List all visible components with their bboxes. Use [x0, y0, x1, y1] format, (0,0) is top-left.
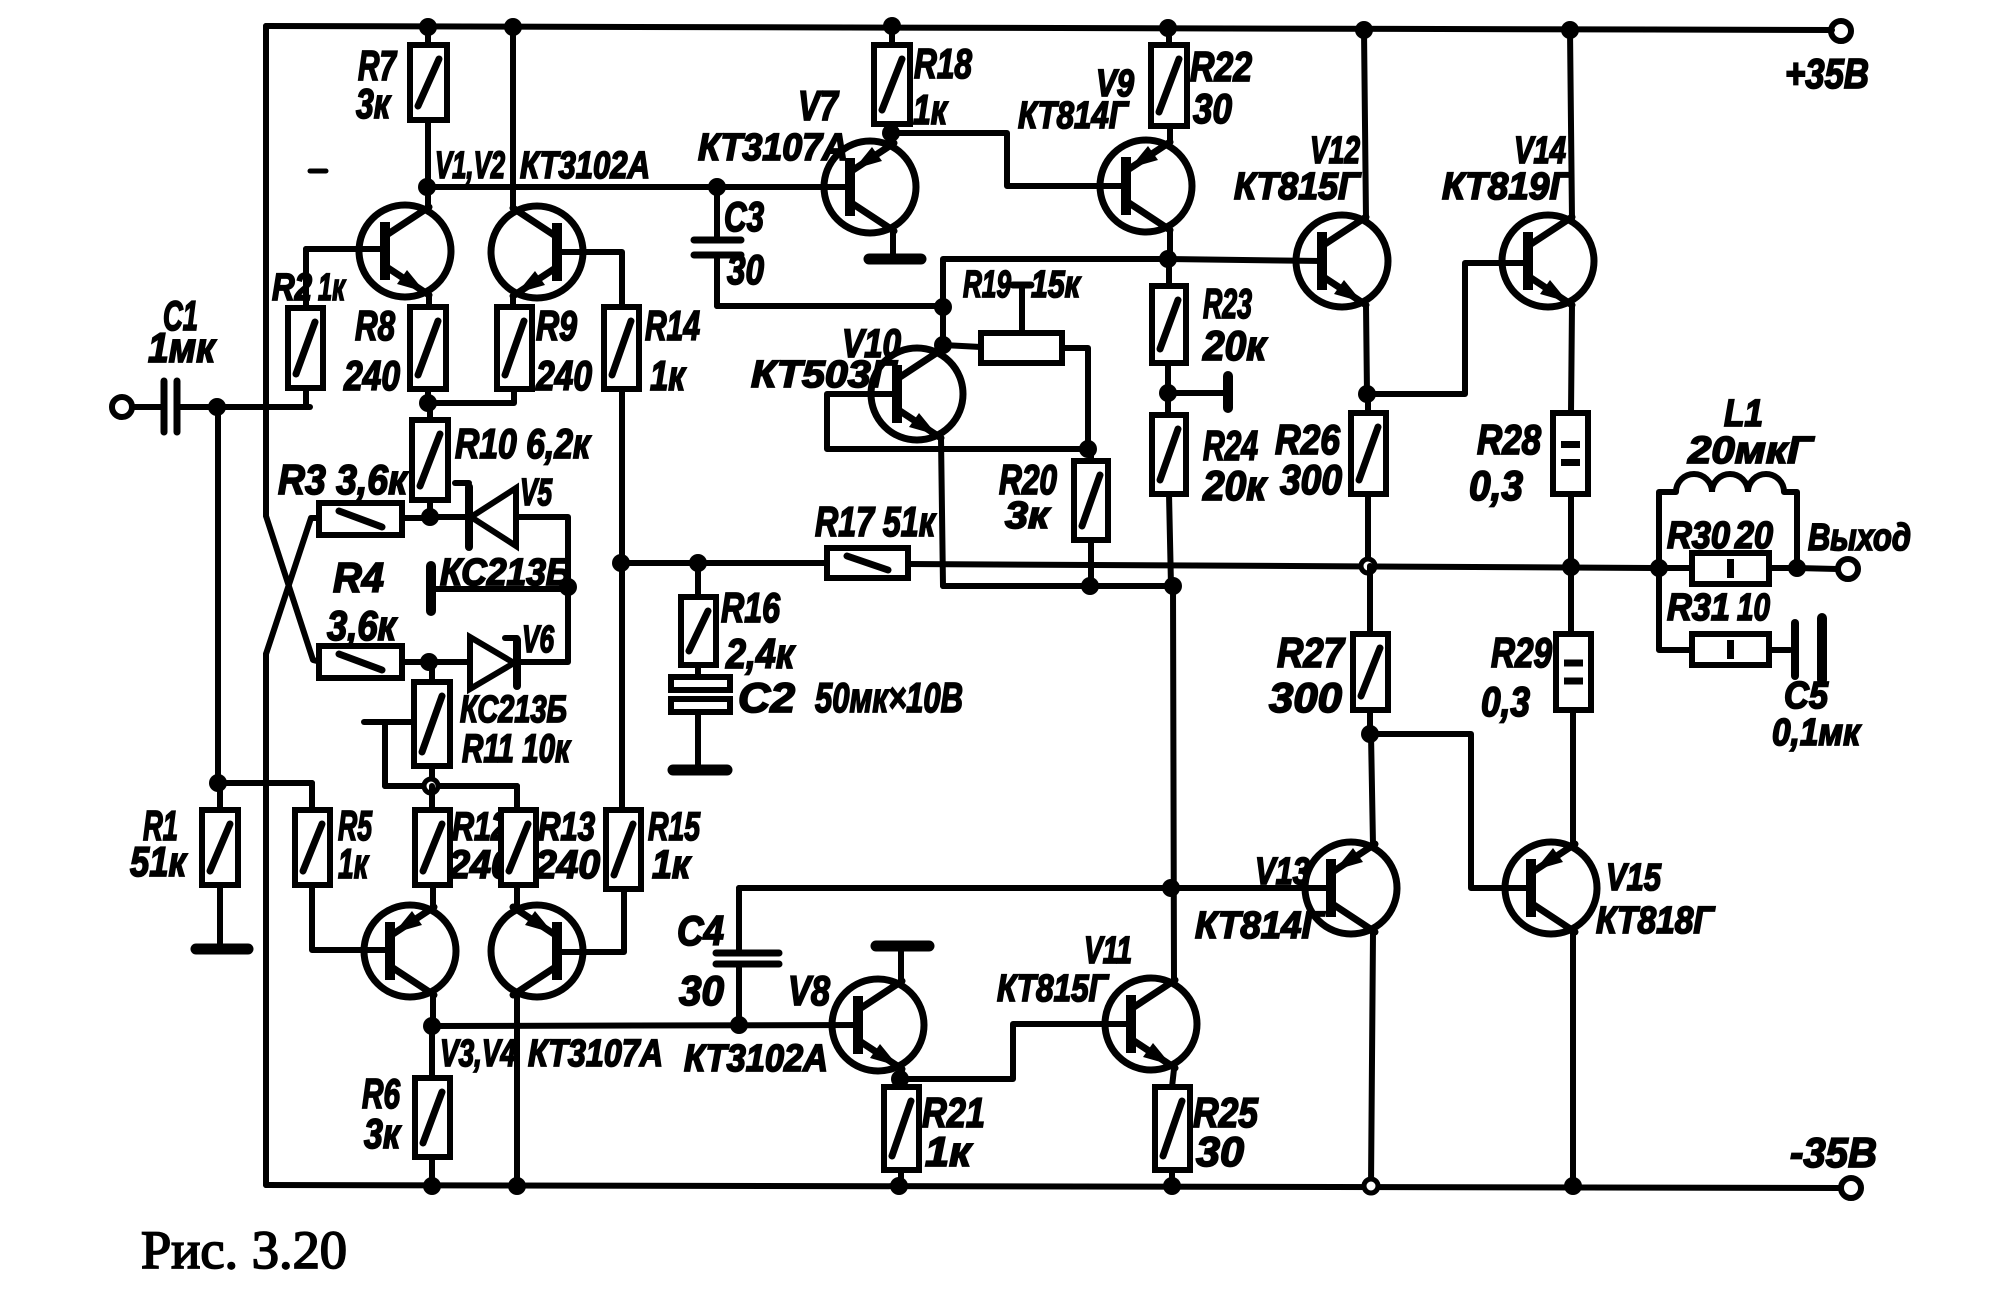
junction V14 collector on rail: [1561, 21, 1579, 39]
junction R6 bottom on rail: [423, 1177, 441, 1195]
wire V9 emitter lead: [1167, 126, 1173, 142]
transistor V11: [1105, 978, 1197, 1070]
junction V13 collector on rail: [1364, 1179, 1378, 1193]
svg-text:1к: 1к: [650, 352, 686, 399]
wire bias node up to V9 collector node: [943, 259, 1168, 306]
wire left bus lower (X crossing to bottom rail): [263, 654, 269, 1185]
wire R1 top to R5: [218, 780, 312, 786]
resistor R25: [1155, 1087, 1190, 1170]
wire R11 bottom rail to R12 R13: [385, 783, 517, 789]
wire V7 emitter lead: [890, 133, 896, 143]
terminal output: [1838, 559, 1858, 579]
svg-text:V15: V15: [1606, 857, 1662, 899]
junction R7 top on rail: [419, 18, 437, 36]
capacitor C2: [671, 677, 730, 690]
resistor R12: [415, 810, 450, 885]
svg-text:R9: R9: [536, 302, 577, 349]
svg-text:V1,V2: V1,V2: [435, 145, 505, 187]
svg-text:3к: 3к: [1005, 495, 1051, 537]
junction R16 top: [689, 554, 707, 572]
svg-text:1к: 1к: [652, 843, 692, 887]
junction R23 R24 tap: [1159, 384, 1177, 402]
tap bar at R23 R24: [1171, 390, 1226, 396]
stray mark: [310, 169, 326, 174]
transistor V13: [1305, 842, 1397, 934]
junction C4 bottom: [730, 1016, 748, 1034]
junction V10 collector node: [934, 336, 952, 354]
svg-text:30: 30: [1196, 1128, 1244, 1175]
svg-text:R4: R4: [333, 554, 384, 601]
wire V14 emitter lead: [1571, 305, 1572, 413]
junction V4 collector on rail: [508, 1177, 526, 1195]
svg-text:L1: L1: [1724, 393, 1763, 435]
inductor L1: [1659, 492, 1676, 568]
svg-text:C2: C2: [738, 674, 795, 721]
wire bias node down: [940, 306, 946, 345]
bar above V8: [876, 941, 929, 952]
svg-text:R17 51к: R17 51к: [815, 498, 936, 545]
wire Vbe multiplier bottom rail: [943, 583, 1173, 589]
svg-text:1мк: 1мк: [148, 324, 217, 371]
capacitor C5: [1791, 623, 1799, 676]
transistor V7: [824, 141, 916, 233]
junction R4 V6 R11 node: [420, 653, 438, 671]
wire V11 emitter lead: [1172, 1069, 1174, 1087]
wire V14 collector lead: [1570, 30, 1572, 219]
junction V3 collector node: [423, 1017, 441, 1035]
svg-text:1к: 1к: [925, 1128, 973, 1175]
junction R3 R10 V5 node: [421, 508, 439, 526]
svg-text:R10 6,2к: R10 6,2к: [455, 420, 591, 467]
wire V15 collector lead: [1570, 933, 1576, 1186]
svg-text:51к: 51к: [130, 838, 187, 885]
svg-text:3к: 3к: [356, 80, 391, 127]
wire V2 collector lead: [510, 27, 516, 208]
svg-text:30: 30: [727, 246, 764, 293]
junction lower driver node: [1162, 879, 1180, 897]
wiper of R19: [1019, 287, 1025, 333]
svg-text:240: 240: [343, 352, 400, 399]
wire V1 base: [306, 246, 385, 252]
junction R8 R9 R10 node: [419, 394, 437, 412]
svg-text:1к: 1к: [913, 86, 948, 133]
junction R21 bottom on rail: [890, 1177, 908, 1195]
resistor R28: [1553, 413, 1588, 494]
svg-text:30: 30: [679, 967, 724, 1014]
wire V10 collector lead: [941, 345, 943, 351]
svg-text:R2: R2: [272, 267, 312, 309]
junction R28 R29 on output rail: [1562, 558, 1580, 576]
svg-text:1к: 1к: [318, 267, 346, 309]
wire C3 to bias node: [717, 303, 943, 309]
junction V15 collector on rail: [1564, 1177, 1582, 1195]
wire left bus upper (top rail to X crossing): [263, 26, 269, 516]
transistor V15: [1505, 842, 1597, 934]
svg-text:240: 240: [535, 352, 592, 399]
terminal -35V: [1841, 1178, 1861, 1198]
svg-text:КС213Б: КС213Б: [460, 689, 567, 731]
junction V12 collector on rail: [1355, 21, 1373, 39]
wire V3 collector lead: [430, 996, 436, 1026]
svg-text:C3: C3: [724, 193, 764, 240]
junction R22 top on rail: [1159, 19, 1177, 37]
wire R12 top lead: [429, 786, 435, 810]
ground below R1: [196, 944, 248, 955]
trimmer wiper R11: [364, 719, 414, 725]
svg-text:КТ818Г: КТ818Г: [1596, 900, 1715, 942]
resistor R17: [827, 548, 908, 578]
wire R15 bottom to V4 base: [559, 889, 624, 952]
transistor V1: [359, 205, 451, 297]
svg-text:Выход: Выход: [1808, 517, 1911, 559]
wire V6 to zener midpoint: [520, 587, 568, 662]
resistor R8: [410, 307, 446, 389]
resistor R4: [319, 646, 402, 678]
svg-text:КТ3107А: КТ3107А: [528, 1033, 663, 1075]
junction R25 bottom on rail: [1163, 1177, 1181, 1195]
svg-text:30: 30: [1193, 85, 1232, 132]
wire column down to V11: [1173, 586, 1174, 980]
resistor R11: [414, 682, 450, 766]
resistor R24: [1152, 415, 1186, 494]
svg-text:Рис. 3.20: Рис. 3.20: [141, 1220, 347, 1280]
transistor V3: [364, 905, 456, 997]
junction R18 bottom node: [882, 124, 900, 142]
svg-text:R3 3,6к: R3 3,6к: [278, 456, 409, 503]
wire V10 emitter lead: [941, 438, 943, 586]
svg-text:240: 240: [534, 843, 600, 887]
wire to output terminal: [1797, 568, 1837, 569]
junction output network right: [1788, 559, 1806, 577]
resistor R6: [415, 1078, 450, 1157]
svg-text:20мкГ: 20мкГ: [1687, 430, 1815, 472]
svg-text:50мк×10В: 50мк×10В: [815, 674, 963, 721]
transistor V9: [1100, 140, 1192, 232]
wire V5 to zener midpoint: [516, 517, 568, 587]
transistor V8: [832, 979, 924, 1071]
resistor R30: [1692, 553, 1769, 584]
resistor R5: [295, 810, 330, 885]
wire lower driver node to V13 base: [1171, 885, 1331, 891]
junction R1 top: [209, 774, 227, 792]
resistor R23: [1152, 286, 1186, 363]
wire output rail left: [621, 560, 827, 566]
wire +35V top rail: [266, 26, 1832, 30]
capacitor C4: [716, 950, 779, 957]
ground below C2: [673, 765, 727, 776]
resistor R9: [497, 307, 532, 389]
svg-text:КТ819Г: КТ819Г: [1442, 166, 1574, 208]
resistor R31: [1692, 634, 1769, 665]
wire V1 collector node to V7 base: [427, 184, 850, 190]
wire node A down to R1: [215, 407, 221, 783]
resistor R18: [874, 45, 910, 124]
wire R13 top lead: [514, 786, 520, 810]
resistor R1: [202, 810, 238, 885]
junction bias tap: [934, 298, 952, 316]
svg-text:R11 10к: R11 10к: [462, 727, 571, 771]
svg-text:R27: R27: [1277, 629, 1345, 676]
resistor R7: [410, 45, 447, 120]
transistor V4: [491, 905, 583, 997]
ground bar below V7: [869, 254, 921, 265]
svg-text:0,3: 0,3: [1469, 462, 1523, 509]
resistor R14: [604, 307, 639, 389]
potentiometer R19: [981, 333, 1062, 363]
junction V8 emitter node: [891, 1070, 909, 1088]
svg-text:КТ3102А: КТ3102А: [684, 1038, 828, 1080]
wire V8 collector lead: [898, 950, 904, 982]
wire V13 collector lead: [1371, 933, 1373, 1186]
transistor V14: [1502, 215, 1594, 307]
resistor R20: [1074, 461, 1108, 540]
wire V12 emitter lead: [1366, 305, 1367, 394]
svg-text:3к: 3к: [364, 1110, 401, 1157]
transistor V10: [871, 348, 963, 440]
svg-text:V13: V13: [1255, 851, 1310, 893]
resistor R29: [1556, 634, 1591, 710]
transistor V12: [1296, 215, 1388, 307]
capacitor C3: [694, 237, 741, 244]
svg-text:КТ815Г: КТ815Г: [1234, 166, 1362, 208]
wire R14 R15 column: [619, 389, 625, 810]
svg-text:R8: R8: [355, 302, 395, 349]
svg-text:V3,V4: V3,V4: [440, 1033, 516, 1075]
junction R18 top on rail: [883, 17, 901, 35]
svg-text:20: 20: [1734, 515, 1773, 557]
capacitor C1: [161, 381, 168, 432]
svg-text:КТ815Г: КТ815Г: [997, 968, 1109, 1010]
svg-text:C4: C4: [677, 907, 724, 954]
svg-text:2,4к: 2,4к: [725, 630, 795, 677]
junction zener midpoint: [559, 578, 577, 596]
svg-text:1к: 1к: [338, 840, 369, 887]
wire V3 collector node to V8 base: [432, 1025, 858, 1026]
wire R23 R24 junction: [1165, 363, 1171, 415]
wire -35V bottom rail: [266, 1185, 1841, 1188]
resistor R27: [1353, 634, 1388, 710]
resistor R15: [606, 810, 641, 889]
junction R20 bottom: [1081, 577, 1099, 595]
resistor R2: [288, 308, 323, 388]
terminal +35V: [1831, 21, 1851, 41]
resistor R16: [681, 597, 716, 665]
wire R8 bottom jog to R9: [428, 389, 514, 403]
svg-text:КТ814Г: КТ814Г: [1018, 95, 1129, 137]
wire V1 emitter lead: [426, 295, 432, 307]
svg-text:R30: R30: [1667, 515, 1730, 557]
svg-text:V5: V5: [520, 472, 553, 514]
junction feedback tap: [612, 554, 630, 572]
svg-text:V8: V8: [788, 967, 831, 1014]
svg-text:V11: V11: [1084, 930, 1132, 972]
wire V2 emitter lead: [510, 296, 516, 307]
resistor R22: [1151, 45, 1187, 126]
junction C3 top: [708, 178, 726, 196]
junction output network left: [1650, 559, 1668, 577]
wire R31 branch: [1659, 568, 1692, 650]
svg-text:КТ503Г: КТ503Г: [751, 354, 898, 396]
resistor R26: [1351, 413, 1386, 494]
wire V4 emitter lead: [514, 885, 520, 906]
wire V8 emitter to V11 base: [900, 1024, 1131, 1079]
junction V9 collector node: [1159, 250, 1177, 268]
svg-text:20к: 20к: [1202, 322, 1268, 369]
zener V6: [429, 659, 470, 665]
resistor R3: [319, 503, 402, 535]
svg-text:R14: R14: [645, 302, 700, 349]
svg-text:R28: R28: [1477, 416, 1542, 463]
junction R11 bottom: [424, 779, 438, 793]
wire V7 collector lead: [890, 232, 896, 255]
svg-text:0,3: 0,3: [1481, 678, 1530, 725]
svg-text:10: 10: [1737, 587, 1770, 629]
svg-text:R19: R19: [963, 264, 1011, 306]
svg-text:15к: 15к: [1031, 264, 1081, 306]
wire C4 to lower driver node: [739, 885, 1171, 891]
wire V13 emitter node to V15 base: [1370, 734, 1531, 888]
junction multiplier to column: [1164, 577, 1182, 595]
svg-text:3,6к: 3,6к: [327, 602, 397, 649]
svg-text:КТ814Г: КТ814Г: [1195, 905, 1326, 947]
svg-text:R31: R31: [1667, 587, 1730, 629]
wire V12 emitter to V14 base: [1367, 263, 1528, 394]
wire C1 to node A: [180, 404, 310, 410]
svg-text:+35В: +35В: [1785, 50, 1869, 97]
wire R5 top lead: [309, 783, 315, 810]
junction V12 emitter node: [1358, 385, 1376, 403]
terminal input: [112, 397, 132, 417]
junction V13 emitter node: [1361, 725, 1379, 743]
svg-text:20к: 20к: [1202, 462, 1268, 509]
resistor R21: [884, 1087, 919, 1170]
junction R26 R27 on output rail: [1361, 559, 1375, 573]
transistor V2: [491, 206, 583, 298]
wire R5 to V3 base: [312, 885, 390, 950]
svg-text:R18: R18: [914, 40, 972, 87]
resistor R10: [412, 420, 448, 500]
wire V8 emitter lead: [899, 1069, 905, 1079]
zener V5: [430, 514, 467, 520]
svg-text:300: 300: [1269, 674, 1342, 721]
wire X crossing diagonal from R3: [266, 518, 320, 654]
resistor R13: [501, 810, 536, 885]
svg-text:0,1мк: 0,1мк: [1772, 712, 1862, 754]
svg-text:R16: R16: [721, 584, 780, 631]
svg-text:R29: R29: [1491, 629, 1552, 676]
junction R19 R20 node: [1079, 440, 1097, 458]
svg-text:-35В: -35В: [1790, 1129, 1877, 1176]
wire V12 collector lead: [1364, 30, 1366, 219]
wire input to C1: [132, 404, 161, 410]
wire V1 collector lead: [425, 187, 431, 207]
svg-text:V7: V7: [798, 82, 839, 129]
svg-text:300: 300: [1280, 456, 1342, 503]
wire V13 emitter lead: [1371, 734, 1373, 845]
wire output rail right: [908, 564, 1659, 568]
junction V2 collector on rail: [504, 18, 522, 36]
tap bar at zener midpoint: [426, 566, 436, 611]
svg-text:КТ3107А: КТ3107А: [698, 127, 848, 169]
wire V9 collector node to V12 base: [1168, 259, 1322, 261]
wire V2 base to R14 column: [557, 252, 622, 307]
svg-text:C5: C5: [1784, 675, 1829, 717]
svg-text:R23: R23: [1203, 280, 1252, 327]
wire R18 node to V9 base: [896, 133, 1126, 186]
svg-text:V6: V6: [522, 619, 555, 661]
wire X crossing diagonal to R4: [266, 516, 321, 662]
svg-text:R22: R22: [1190, 43, 1252, 90]
wire V9 collector lead: [1167, 230, 1173, 259]
junction node A: [208, 398, 226, 416]
svg-text:КТ3102А: КТ3102А: [520, 145, 650, 187]
junction V1 collector node: [418, 178, 436, 196]
wire V3 emitter lead: [430, 885, 436, 906]
wire V10 base loop: [827, 394, 1088, 449]
wire V4 collector lead: [514, 996, 520, 1186]
